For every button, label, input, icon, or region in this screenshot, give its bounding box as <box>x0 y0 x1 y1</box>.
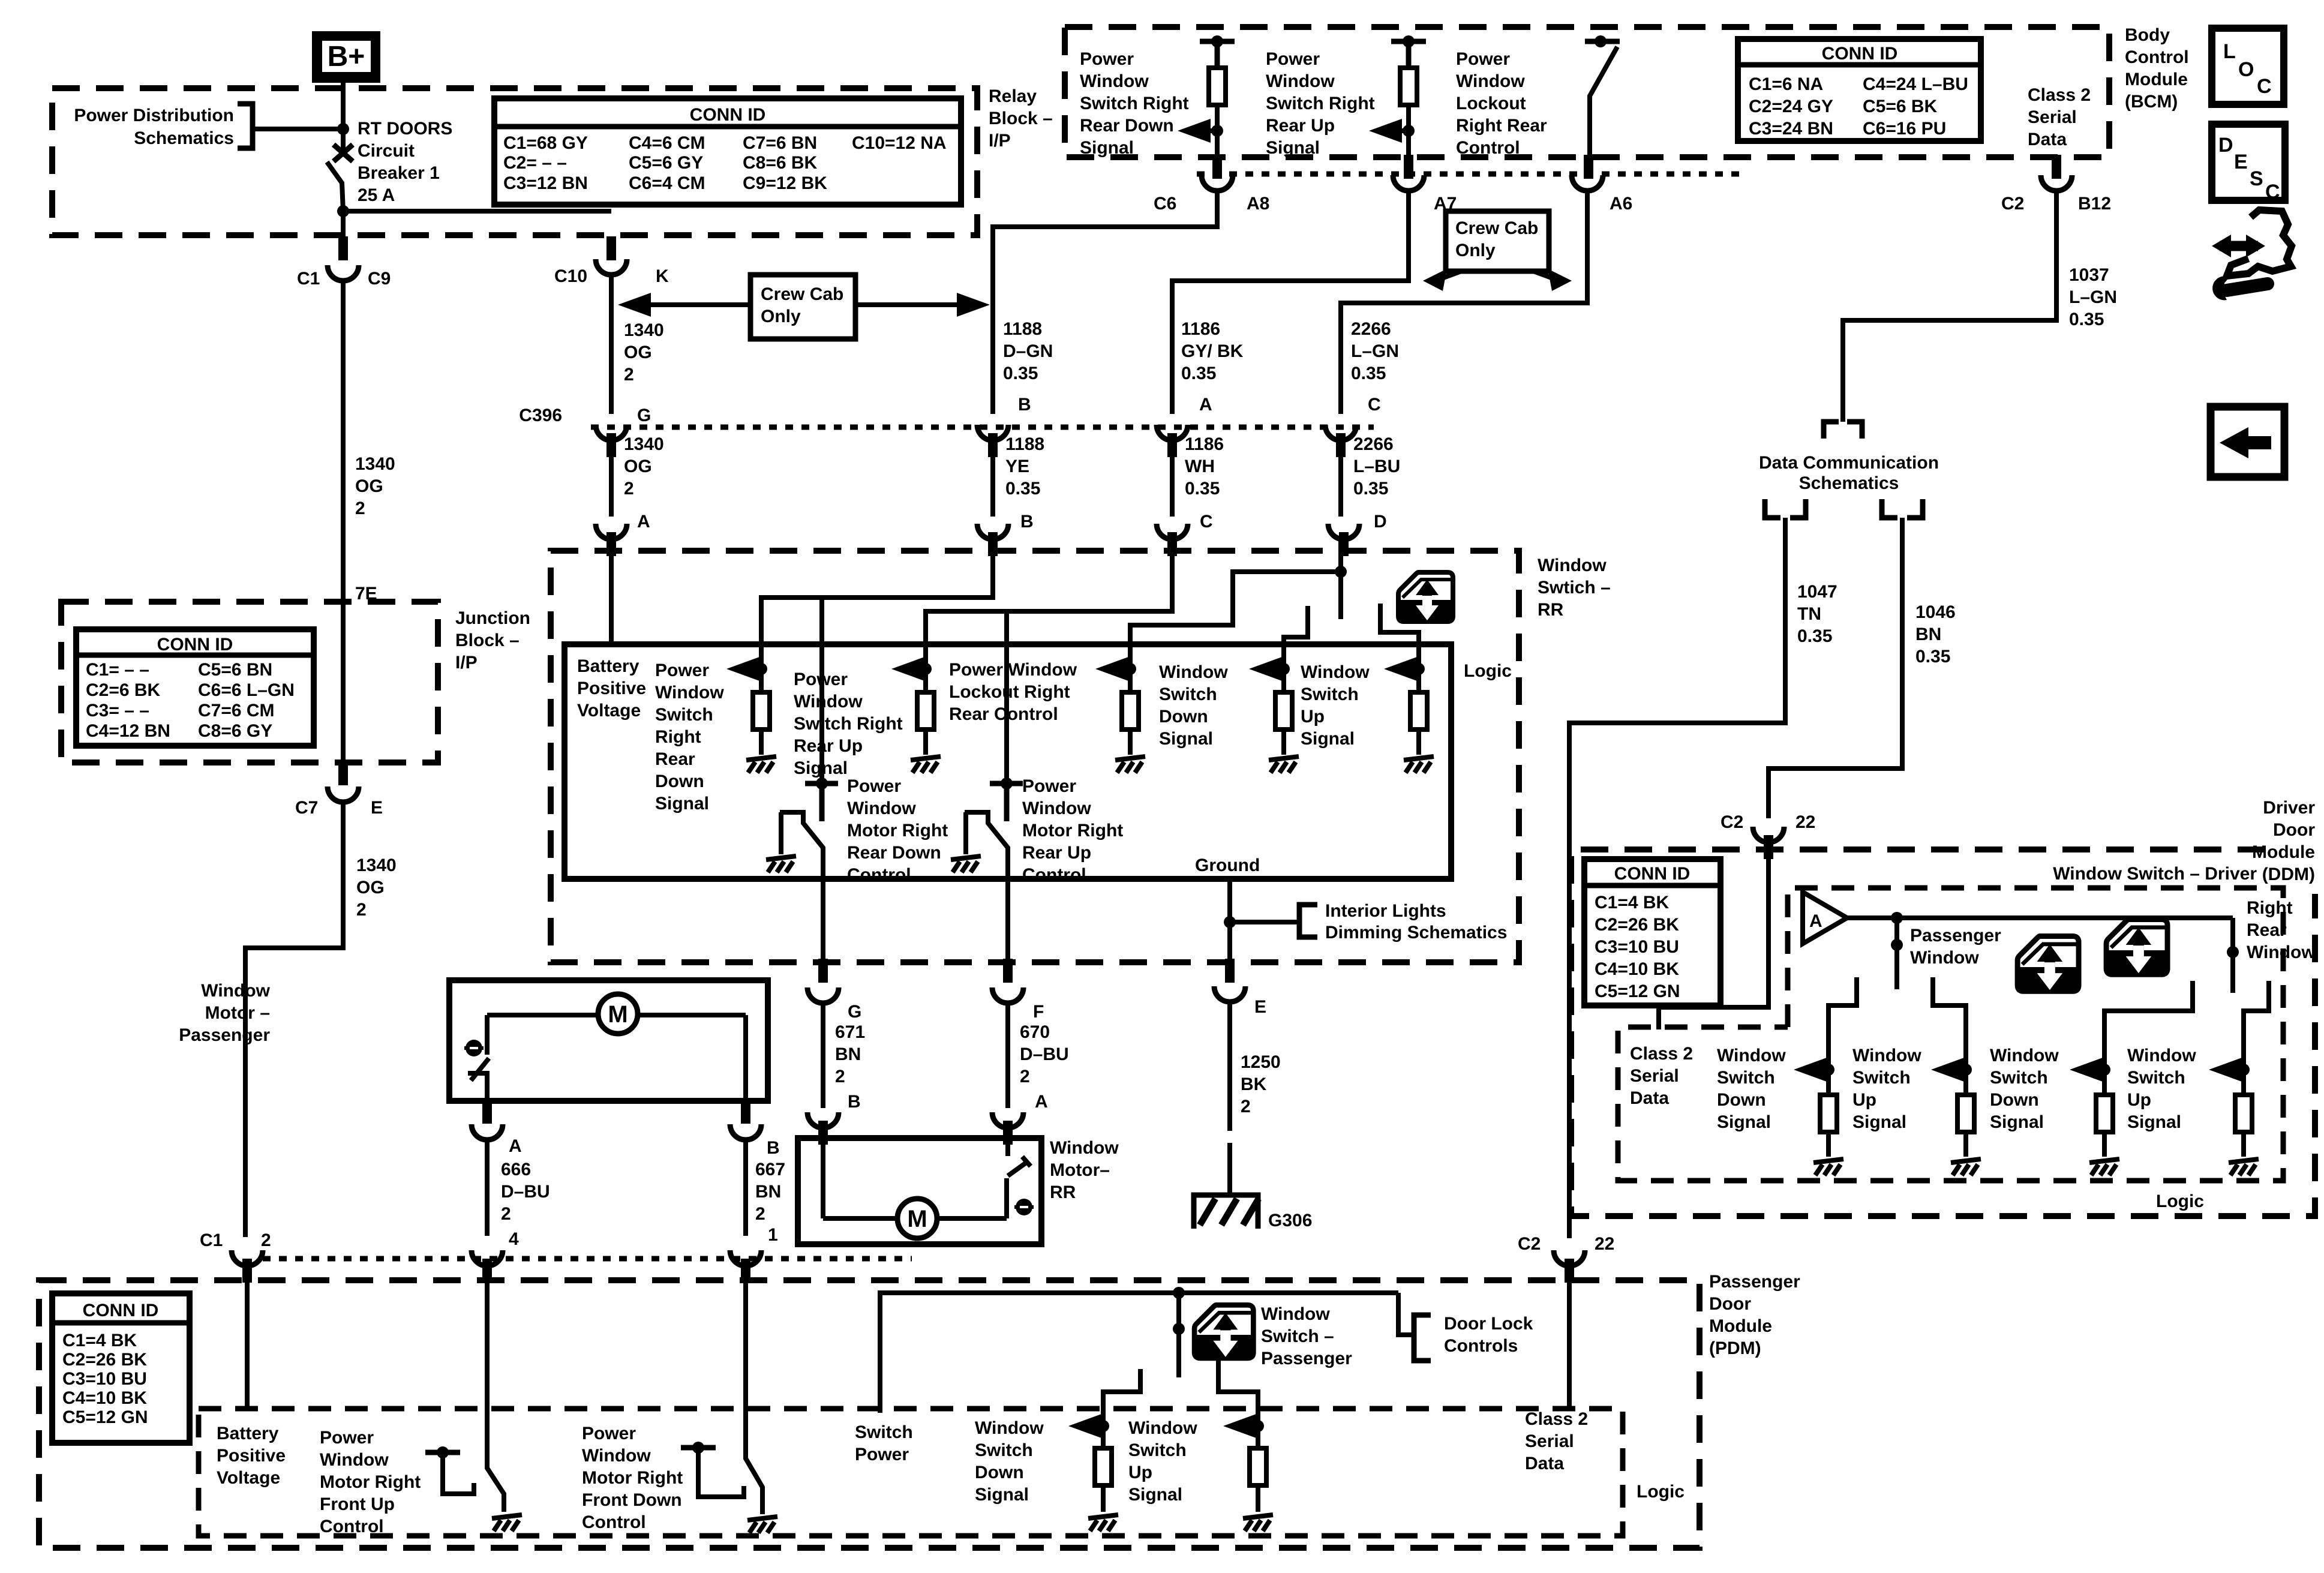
text Window Switch Down Signal (DDM3) <box>1990 1046 2059 1132</box>
motor front up control switch contact <box>425 1446 474 1494</box>
wire label 2266 L-BU 0.35 <box>1353 434 1400 499</box>
svg-text:Motor Right: Motor Right <box>1022 821 1123 840</box>
svg-text:Power: Power <box>847 776 901 796</box>
svg-text:Window: Window <box>1050 1138 1119 1158</box>
svg-text:Window: Window <box>794 692 863 712</box>
svg-text:Crew Cab: Crew Cab <box>1455 218 1538 238</box>
resistor DDM chain 1 <box>1820 1070 1837 1132</box>
svg-text:Switch: Switch <box>1990 1068 2048 1088</box>
text Power Distribution Schematics <box>74 106 234 148</box>
arrow window switch up <box>1384 657 1419 681</box>
connector stub below C2 22 DDM <box>1764 835 1773 859</box>
svg-text:Power: Power <box>1456 49 1510 69</box>
wire label 1340 OG 2 (lower) <box>356 855 397 920</box>
ground DDM chain 1 <box>1813 1132 1843 1175</box>
connector cup C2 22 PDM <box>1554 1250 1585 1266</box>
svg-text:Positive: Positive <box>577 679 646 698</box>
motor M RR <box>897 1199 937 1238</box>
contact stub window switch up <box>1380 604 1419 669</box>
svg-text:2: 2 <box>356 900 367 920</box>
svg-text:Window: Window <box>1128 1418 1197 1438</box>
svg-text:Signal: Signal <box>1080 138 1134 158</box>
text Class 2 Serial Data (DDM) <box>1630 1044 1693 1108</box>
svg-text:2: 2 <box>1020 1067 1030 1086</box>
svg-text:Signal: Signal <box>2127 1112 2181 1132</box>
connector cup C7 E <box>328 786 359 802</box>
text Power Window Motor Right Front Down Control <box>582 1424 683 1532</box>
wire label 1188 YE 0.35 <box>1005 434 1044 499</box>
svg-text:Switch –: Switch – <box>1261 1326 1334 1346</box>
svg-text:RT DOORS: RT DOORS <box>358 119 452 139</box>
text RT DOORS Circuit Breaker 1 25 A <box>358 119 452 205</box>
svg-text:Switch: Switch <box>655 705 713 725</box>
svg-text:1340: 1340 <box>624 320 664 340</box>
svg-text:Serial: Serial <box>1525 1431 1574 1451</box>
svg-text:Voltage: Voltage <box>217 1468 280 1488</box>
arrow DDM chain 1 <box>1794 1058 1828 1082</box>
svg-text:Window: Window <box>1301 662 1370 682</box>
svg-text:K: K <box>656 266 669 286</box>
window motor RR box <box>798 1138 1041 1244</box>
B+ battery positive symbol <box>312 31 380 83</box>
node junction window switch up <box>1413 663 1425 675</box>
wire B to row3 <box>990 438 995 517</box>
svg-text:666: 666 <box>501 1160 531 1179</box>
svg-text:Control: Control <box>1022 865 1086 885</box>
svg-text:2266: 2266 <box>1353 434 1394 454</box>
text Passenger Door Module (PDM) <box>1709 1272 1800 1358</box>
svg-text:C6: C6 <box>1154 194 1176 214</box>
svg-text:C6=4 CM: C6=4 CM <box>629 173 705 193</box>
svg-text:Switch: Switch <box>975 1440 1033 1460</box>
arrow rear down signal <box>1178 119 1217 143</box>
text Right Rear Window <box>2247 898 2316 962</box>
text Window Switch Up Signal (DDM4) <box>2127 1046 2196 1132</box>
svg-text:Power: Power <box>582 1424 636 1443</box>
svg-text:BN: BN <box>835 1044 861 1064</box>
svg-text:D–BU: D–BU <box>501 1182 550 1202</box>
arrow PDM chain up <box>1223 1414 1258 1438</box>
svg-text:C4=12 BN: C4=12 BN <box>86 721 170 741</box>
svg-text:C1: C1 <box>200 1230 223 1250</box>
brush polarity symbol RR <box>1014 1199 1034 1215</box>
svg-text:O: O <box>2238 58 2254 81</box>
svg-text:C: C <box>2257 75 2272 98</box>
connector stub below A motor <box>1003 1121 1013 1145</box>
wire A8 jog to 1188 <box>993 189 1217 414</box>
CONN ID table (BCM) <box>1738 39 1981 141</box>
svg-text:2: 2 <box>261 1230 271 1250</box>
svg-text:2: 2 <box>624 479 634 499</box>
svg-text:Window: Window <box>1456 71 1525 91</box>
svg-text:Data: Data <box>1525 1454 1564 1473</box>
text Power Window Motor Right Rear Up Control <box>1022 776 1123 885</box>
wire resistor to BCM edge <box>1406 105 1411 157</box>
wire label 1047 TN 0.35 <box>1797 582 1837 646</box>
ground DDM chain 2 <box>1951 1132 1981 1175</box>
text Power Window Switch Right Rear Down Signal <box>1080 49 1189 158</box>
svg-text:Down: Down <box>655 772 704 791</box>
connector stub below 1 <box>741 1259 750 1283</box>
svg-text:Control: Control <box>1456 138 1520 158</box>
svg-text:Down: Down <box>1159 707 1208 727</box>
wire 1046 BN to DDM <box>1768 518 1902 818</box>
bracket to power distribution schematics <box>238 104 253 148</box>
connector cup E <box>1214 986 1245 1002</box>
svg-text:Window: Window <box>2127 1046 2196 1065</box>
wire 1340 OG down to junction block <box>341 282 346 602</box>
BCM switch contact bar rear up <box>1391 35 1426 68</box>
svg-text:0.35: 0.35 <box>1353 479 1388 499</box>
svg-text:C8=6 GY: C8=6 GY <box>198 721 272 741</box>
svg-text:B+: B+ <box>328 41 365 73</box>
connector cup B passenger motor <box>730 1124 761 1140</box>
wire label 670 D-BU 2 <box>1020 1022 1069 1086</box>
connector stub C10 <box>606 236 616 260</box>
text Power Window Motor Right Front Up Control <box>320 1428 421 1536</box>
ground PDM chain down <box>1088 1485 1118 1531</box>
svg-text:L: L <box>2223 40 2236 63</box>
svg-text:Body: Body <box>2125 25 2170 45</box>
inline connector C396 dotted row <box>591 425 1374 430</box>
ground motor rear down switch <box>766 856 796 872</box>
svg-text:Signal: Signal <box>1852 1112 1906 1132</box>
contact stub passenger up <box>1933 977 1966 1070</box>
svg-text:A8: A8 <box>1247 194 1269 214</box>
svg-text:(BCM): (BCM) <box>2125 92 2178 112</box>
wire A6 jog to 2266 <box>1341 189 1587 414</box>
svg-text:B: B <box>1018 395 1031 415</box>
arrow rear down signal (switch) <box>726 657 761 681</box>
text Window Motor- RR <box>1050 1138 1119 1202</box>
svg-text:Logic: Logic <box>2156 1191 2204 1211</box>
svg-text:OG: OG <box>624 343 652 362</box>
text Window Switch Down Signal (PDM) <box>975 1418 1044 1505</box>
node junction DDM chain 4 <box>2238 1064 2250 1076</box>
svg-text:Rear: Rear <box>2247 920 2287 940</box>
svg-text:Up: Up <box>1301 707 1325 727</box>
svg-text:L–GN: L–GN <box>2069 287 2117 307</box>
wire buffer output bus <box>1847 915 2233 920</box>
svg-text:E: E <box>1254 997 1266 1017</box>
connector stub below C2 22 PDM <box>1565 1259 1574 1283</box>
arrow PDM chain down <box>1068 1414 1103 1438</box>
resistor window switch down <box>1275 669 1292 730</box>
svg-text:Down: Down <box>1717 1090 1766 1110</box>
svg-text:Class 2: Class 2 <box>1630 1044 1693 1064</box>
CONN ID table (junction block) <box>76 629 314 746</box>
wire to door lock controls <box>1398 1293 1414 1335</box>
svg-text:Up: Up <box>1128 1463 1152 1482</box>
svg-text:Control: Control <box>847 865 911 885</box>
text Power Window Lockout Right Rear Control <box>1456 49 1547 158</box>
svg-text:0.35: 0.35 <box>1003 364 1038 383</box>
arrow window switch down <box>1249 657 1284 681</box>
wire D into box with tap <box>1335 537 1347 619</box>
svg-text:B: B <box>1020 512 1034 532</box>
svg-text:Driver: Driver <box>2263 798 2315 818</box>
svg-text:OG: OG <box>624 457 652 476</box>
contact stub window switch down <box>1284 606 1308 669</box>
svg-text:Relay: Relay <box>989 86 1037 106</box>
svg-text:0.35: 0.35 <box>1185 479 1220 499</box>
connector cup C1 2 <box>232 1250 263 1266</box>
ground front up switch <box>492 1515 522 1531</box>
svg-text:Power: Power <box>320 1428 374 1448</box>
bracket data communication lower right <box>1882 499 1923 518</box>
svg-text:Passenger: Passenger <box>1261 1349 1352 1368</box>
svg-text:Window: Window <box>1080 71 1149 91</box>
svg-text:670: 670 <box>1020 1022 1050 1042</box>
svg-text:BN: BN <box>1915 625 1941 644</box>
op-amp style buffer A <box>1803 892 1847 944</box>
svg-text:BK: BK <box>1241 1074 1267 1094</box>
connector cup C396 C <box>1325 425 1356 440</box>
connector cup switch B <box>977 524 1008 539</box>
svg-text:Motor –: Motor – <box>205 1003 270 1023</box>
text Door Lock Controls <box>1444 1314 1533 1356</box>
resistor rear up signal (switch) <box>917 669 934 730</box>
svg-text:D: D <box>1374 512 1387 532</box>
svg-text:Lockout: Lockout <box>1456 94 1526 113</box>
wire 666 D-BU <box>485 1137 490 1236</box>
connector stub E <box>1225 959 1235 983</box>
svg-text:Down: Down <box>975 1463 1024 1482</box>
junction block I/P dashed box <box>61 602 438 763</box>
service tool icon <box>2212 210 2292 300</box>
svg-text:Rear: Rear <box>655 749 695 769</box>
arrow DDM chain 3 <box>2070 1058 2104 1082</box>
svg-text:C2: C2 <box>1721 812 1743 832</box>
svg-text:1046: 1046 <box>1915 602 1956 622</box>
svg-text:2266: 2266 <box>1351 319 1391 339</box>
svg-text:Rear Up: Rear Up <box>1022 843 1091 863</box>
passenger door module PDM dashed box <box>39 1280 1700 1548</box>
connector cup C396 A <box>1157 425 1188 440</box>
connector stub F <box>1005 879 1010 960</box>
text Battery Positive Voltage <box>577 656 646 721</box>
svg-text:OG: OG <box>355 476 383 496</box>
svg-text:B: B <box>848 1092 861 1112</box>
svg-text:C5=12 GN: C5=12 GN <box>62 1407 148 1427</box>
svg-text:Window Switch – Driver: Window Switch – Driver <box>2053 864 2257 884</box>
svg-text:C2=24 GY: C2=24 GY <box>1749 97 1833 116</box>
resistor DDM chain 2 <box>1957 1070 1974 1132</box>
connector stub A6 <box>1584 155 1593 179</box>
wire A7 jog to 1186 <box>1172 189 1409 414</box>
window switch driver dashed box <box>1618 888 2283 1181</box>
connector stub below C <box>1336 433 1346 457</box>
svg-text:Signal: Signal <box>1990 1112 2044 1132</box>
text Body Control Module (BCM) <box>2125 25 2189 112</box>
svg-text:0.35: 0.35 <box>1797 626 1832 646</box>
svg-text:Only: Only <box>1455 241 1496 260</box>
resistor window switch up <box>1410 669 1427 730</box>
connector cup switch D <box>1328 524 1359 539</box>
svg-text:Logic: Logic <box>1464 661 1512 681</box>
resistor rear up signal <box>1400 68 1417 105</box>
wire breaker down to C1/C9 <box>341 211 346 238</box>
resistor rear down signal <box>1209 68 1226 105</box>
svg-text:I/P: I/P <box>455 653 478 673</box>
svg-text:Door Lock: Door Lock <box>1444 1314 1533 1334</box>
wire class 2 into PDM <box>1567 1266 1572 1411</box>
svg-text:Signal: Signal <box>1266 138 1320 158</box>
connector stub below B switch <box>988 532 998 556</box>
svg-text:GY/ BK: GY/ BK <box>1181 341 1244 361</box>
svg-text:2: 2 <box>1241 1097 1251 1116</box>
window lift icon DDM 1 <box>2017 936 2079 991</box>
svg-text:A6: A6 <box>1610 194 1632 214</box>
wire label 2266 L-GN 0.35 <box>1351 319 1399 383</box>
svg-text:1340: 1340 <box>624 434 664 454</box>
arrow rear up signal <box>1369 119 1409 143</box>
contact stub passenger down <box>1828 977 1857 1070</box>
crew cab only callout box 1 <box>750 275 855 339</box>
text Power Window Motor Right Rear Down Control <box>847 776 948 885</box>
svg-text:Schematics: Schematics <box>1799 473 1899 493</box>
svg-text:Serial: Serial <box>1630 1066 1679 1086</box>
svg-text:Switch: Switch <box>1128 1440 1187 1460</box>
connector cup C396 B <box>977 425 1008 440</box>
connector stub below B <box>988 433 998 457</box>
connector stub below B motor <box>818 1121 828 1145</box>
text Power Window Switch Right Rear Down Signal <box>655 661 724 813</box>
svg-text:F: F <box>1033 1002 1044 1022</box>
svg-text:C5=6 BN: C5=6 BN <box>198 660 272 680</box>
arrow crew cab 1 right <box>855 293 990 317</box>
svg-text:Window: Window <box>975 1418 1044 1438</box>
svg-text:Door: Door <box>1709 1294 1751 1314</box>
connector cup F <box>992 987 1023 1003</box>
svg-text:Window: Window <box>1852 1046 1921 1065</box>
svg-text:C1=68 GY: C1=68 GY <box>503 133 588 153</box>
text Window Switch Up Signal (DDM2) <box>1852 1046 1921 1132</box>
window lift icon passenger switch <box>1194 1305 1253 1358</box>
node junction PDM chain down <box>1097 1420 1109 1432</box>
svg-text:2: 2 <box>835 1067 845 1086</box>
svg-text:A: A <box>509 1136 522 1156</box>
CONN ID table (DDM) <box>1584 859 1721 1005</box>
wire label 1186 WH 0.35 <box>1185 434 1224 499</box>
svg-text:Switch: Switch <box>2127 1068 2185 1088</box>
text Window Switch Down Signal (RR) <box>1159 662 1228 749</box>
connector cup A7 <box>1393 175 1424 191</box>
wire ground bus to E <box>1224 879 1236 962</box>
window lift icon DDM 2 <box>2106 919 2167 974</box>
svg-text:0.35: 0.35 <box>1351 364 1386 383</box>
motor rear up control switch <box>965 778 1023 879</box>
svg-text:C3=10 BU: C3=10 BU <box>1595 937 1679 957</box>
svg-text:1047: 1047 <box>1797 582 1837 602</box>
svg-text:Only: Only <box>761 307 801 326</box>
svg-text:1037: 1037 <box>2069 265 2109 285</box>
svg-text:Switch: Switch <box>1159 685 1217 704</box>
svg-text:CONN ID: CONN ID <box>157 635 233 655</box>
svg-text:Signal: Signal <box>1717 1112 1771 1132</box>
connector stub below C1 <box>242 1259 252 1283</box>
connector stub below 4 <box>482 1259 492 1283</box>
svg-text:Door: Door <box>2273 820 2315 840</box>
svg-text:Window: Window <box>1159 662 1228 682</box>
svg-text:Power: Power <box>1022 776 1076 796</box>
svg-text:Signal: Signal <box>975 1485 1029 1505</box>
node junction at breaker top <box>337 123 349 135</box>
wire 670 <box>1005 1001 1010 1108</box>
text Window Switch Down Signal (DDM1) <box>1717 1046 1786 1132</box>
svg-text:Switch Right: Switch Right <box>794 714 903 734</box>
DESC reference box <box>2212 124 2285 203</box>
text Junction Block - I/P <box>455 608 530 673</box>
svg-text:25 A: 25 A <box>358 185 395 205</box>
connector cup 1 <box>730 1250 761 1266</box>
connector stub below C switch <box>1167 532 1177 556</box>
svg-text:Crew Cab: Crew Cab <box>761 284 843 304</box>
svg-text:Power: Power <box>1080 49 1134 69</box>
connector cup switch C <box>1157 524 1188 539</box>
svg-text:CONN ID: CONN ID <box>1822 44 1898 64</box>
svg-text:Switch: Switch <box>1301 685 1359 704</box>
node junction lockout control <box>1124 663 1136 675</box>
svg-text:Motor Right: Motor Right <box>582 1468 683 1488</box>
svg-text:2: 2 <box>355 499 365 518</box>
svg-text:2: 2 <box>624 365 634 385</box>
svg-text:C1=4 BK: C1=4 BK <box>62 1331 137 1350</box>
svg-text:Right Rear: Right Rear <box>1456 116 1547 136</box>
svg-text:0.35: 0.35 <box>1915 647 1950 667</box>
svg-text:C3=12 BN: C3=12 BN <box>503 173 588 193</box>
relay block I/P dashed box <box>52 88 977 235</box>
wire A to row3 <box>1170 438 1175 517</box>
text Switch Power <box>855 1422 913 1464</box>
resistor DDM chain 3 <box>2096 1070 2113 1132</box>
motor M passenger <box>598 994 638 1034</box>
svg-text:B12: B12 <box>2078 194 2111 214</box>
svg-text:Signal: Signal <box>1128 1485 1182 1505</box>
wire label 1186 GY/BK 0.35 <box>1181 319 1244 383</box>
text Window Motor - Passenger <box>179 981 270 1045</box>
svg-text:Class 2: Class 2 <box>2028 85 2091 105</box>
svg-text:Control: Control <box>2125 47 2189 67</box>
wire 667 BN <box>743 1137 748 1236</box>
bracket interior lights <box>1299 905 1317 937</box>
svg-text:C5=12 GN: C5=12 GN <box>1595 981 1680 1001</box>
wire to interior lights bracket <box>1230 920 1298 924</box>
connector stub C1/C9 <box>338 236 348 260</box>
resistor lockout control <box>1122 669 1139 730</box>
connector cup C2 22 DDM <box>1753 827 1784 842</box>
resistor DDM chain 4 <box>2235 1070 2252 1132</box>
svg-text:Passenger: Passenger <box>1709 1272 1800 1292</box>
svg-text:1186: 1186 <box>1185 434 1224 454</box>
brush polarity symbol passenger <box>464 1040 484 1056</box>
svg-text:Data: Data <box>2028 130 2067 149</box>
wire battery into PDM <box>245 1266 250 1411</box>
svg-text:C9: C9 <box>368 269 391 289</box>
svg-text:RR: RR <box>1538 600 1564 620</box>
node junction window switch down <box>1278 663 1290 675</box>
svg-text:Rear Up: Rear Up <box>794 736 863 756</box>
svg-text:C4=10 BK: C4=10 BK <box>62 1388 147 1408</box>
svg-text:Switch: Switch <box>1852 1068 1911 1088</box>
inline connector dotted row PDM <box>263 1256 912 1262</box>
text Battery Positive Voltage (PDM) <box>217 1424 286 1488</box>
motor switch contact RR <box>1008 1157 1031 1176</box>
svg-text:Serial: Serial <box>2028 107 2077 127</box>
svg-text:Schematics: Schematics <box>134 128 234 148</box>
wire C10 down to C396 <box>609 273 614 414</box>
connector cup B (motor RR) <box>807 1112 839 1128</box>
